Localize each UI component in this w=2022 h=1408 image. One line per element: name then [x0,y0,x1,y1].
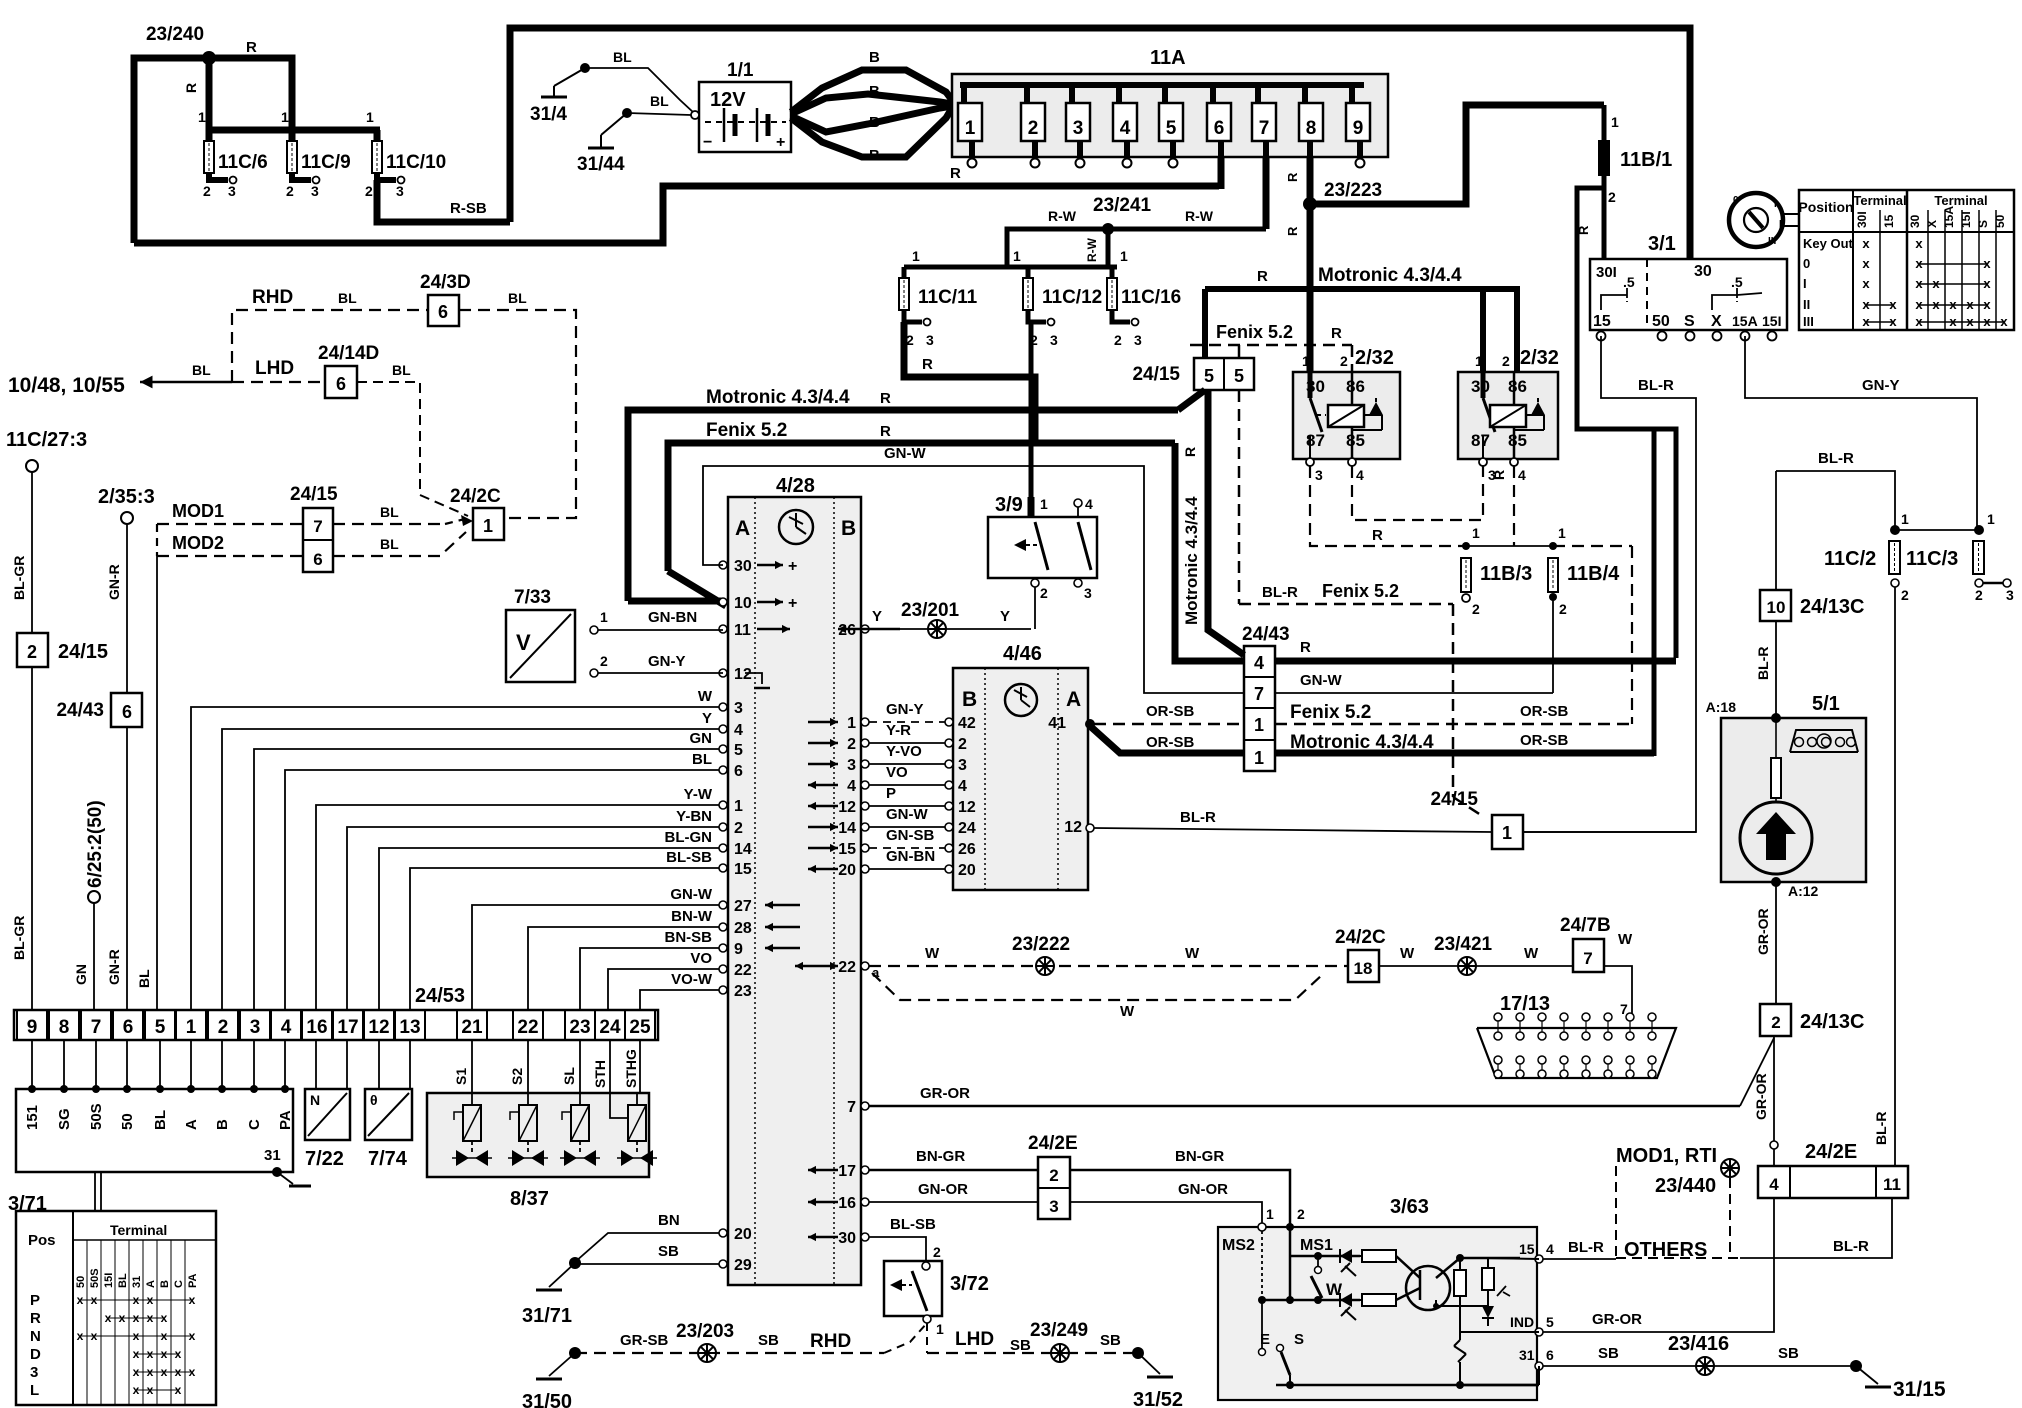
svg-text:23/249: 23/249 [1030,1320,1088,1341]
4/28 A pin arrows [745,558,800,952]
connector 24/43 [1242,624,1290,771]
svg-text:1: 1 [1472,525,1480,541]
svg-text:GR-SB: GR-SB [620,1332,669,1349]
svg-text:Terminal: Terminal [1934,193,1987,208]
svg-text:2: 2 [1028,118,1039,139]
svg-text:3/72: 3/72 [950,1273,989,1295]
svg-text:11A: 11A [1150,47,1186,69]
svg-text:11C/12: 11C/12 [1042,287,1102,308]
switch 3/72 [884,1244,989,1337]
svg-text:86: 86 [1346,377,1365,396]
wire R bottom loop [134,165,1219,243]
svg-text:2: 2 [958,736,967,753]
svg-text:14: 14 [734,841,752,858]
svg-text:A: A [145,1280,157,1288]
terminal 6/25:2(50) [73,800,106,1010]
fuse 11B/3 [1461,558,1532,617]
svg-text:5: 5 [734,742,743,759]
svg-text:1: 1 [1120,248,1128,264]
svg-text:4: 4 [1120,118,1131,139]
svg-text:24/7B: 24/7B [1560,915,1611,936]
wire BN-GR pin 17 [869,1148,1038,1170]
svg-text:BL-SB: BL-SB [890,1216,936,1233]
svg-text:R-SB: R-SB [450,200,487,217]
svg-text:R: R [1331,325,1342,342]
svg-text:6/25:2(50): 6/25:2(50) [85,800,106,888]
svg-text:RHD: RHD [252,287,293,308]
svg-text:Y-R: Y-R [886,722,911,739]
wire BL-R fenix dashed down [1239,390,1453,604]
wire BL MOD2 right [333,532,466,556]
svg-text:Y: Y [872,608,882,625]
svg-text:11C/10: 11C/10 [386,152,446,173]
wire GN-W 24/43 right [1275,672,1553,693]
svg-text:Fenix 5.2: Fenix 5.2 [1216,322,1293,342]
svg-text:17: 17 [337,1017,358,1038]
wire BL-R 3/63 to OTHERS [1543,1239,1616,1259]
ignition switch 3/1 [1590,233,1787,330]
connector 24/15 5 5 [1132,358,1254,390]
svg-text:LHD: LHD [255,358,294,379]
svg-text:Position: Position [1798,199,1853,215]
svg-text:2/32: 2/32 [1355,347,1394,369]
svg-text:Motronic 4.3/4.4: Motronic 4.3/4.4 [1290,732,1434,753]
svg-text:3: 3 [1084,585,1092,601]
svg-text:24/15: 24/15 [290,484,338,505]
svg-text:3: 3 [1050,332,1058,348]
svg-text:Y-BN: Y-BN [676,808,712,825]
wire R Fenix dashed to relay A [1190,322,1352,372]
svg-text:VO-W: VO-W [671,971,713,988]
ground 31/71 [522,1257,581,1327]
svg-text:Terminal: Terminal [1853,193,1906,208]
svg-text:6: 6 [123,1017,134,1038]
svg-text:GN: GN [690,730,713,747]
wire W to 17/13 [1604,931,1633,1017]
svg-text:24/2E: 24/2E [1805,1141,1857,1163]
svg-text:2: 2 [1608,189,1616,205]
svg-text:23: 23 [734,983,752,1000]
svg-text:30: 30 [1908,214,1922,228]
svg-text:15: 15 [734,861,752,878]
svg-text:A:12: A:12 [1788,883,1819,899]
svg-text:11C/27:3: 11C/27:3 [6,429,87,451]
connector 24/43 6 [56,693,142,1010]
svg-text:Motronic 4.3/4.4: Motronic 4.3/4.4 [706,387,850,408]
valve block 8/37 [427,1093,657,1210]
wire R 11C/11 down [904,322,1035,443]
svg-text:3/9: 3/9 [995,494,1023,516]
svg-text:2: 2 [1340,353,1348,369]
svg-text:0: 0 [1803,256,1810,271]
wire BL 24/3D right dashed [459,290,576,518]
connector 24/15 7 6 [290,484,338,572]
svg-text:W: W [1524,945,1539,962]
svg-text:3: 3 [311,183,319,199]
connector 24/3D [420,272,471,326]
svg-text:26: 26 [838,622,856,639]
svg-text:24/43: 24/43 [56,700,104,721]
svg-text:6: 6 [122,702,132,722]
svg-text:A: A [735,517,750,540]
svg-text:S: S [1976,220,1990,228]
wire R to relay 2/32 B pin2 [1514,289,1520,372]
svg-text:15: 15 [838,841,856,858]
svg-text:3: 3 [30,1364,38,1381]
ground 31/4 [530,49,694,125]
svg-text:50: 50 [119,1113,136,1130]
svg-text:SB: SB [1100,1332,1121,1349]
svg-text:1: 1 [847,715,856,732]
relay 2/32 A [1293,347,1400,483]
connector 24/13C 2 [1760,1004,1865,1036]
svg-text:24/43: 24/43 [1242,624,1290,645]
svg-text:24/3D: 24/3D [420,272,471,293]
svg-text:3: 3 [1315,467,1323,483]
svg-text:24/13C: 24/13C [1800,1011,1865,1033]
svg-text:1: 1 [734,798,743,815]
wires 24/53 to 8/37 [453,1040,640,1093]
svg-text:BL: BL [392,362,411,378]
svg-text:MS2: MS2 [1222,1237,1255,1254]
wire W dashed lower [872,973,1322,1020]
svg-text:X: X [1711,313,1722,330]
svg-text:30: 30 [838,1230,856,1247]
svg-text:GN-W: GN-W [1300,672,1342,689]
4/46 pin 12 [1064,819,1094,836]
svg-text:3/63: 3/63 [1390,1196,1429,1218]
svg-text:3: 3 [250,1017,261,1038]
svg-text:1: 1 [1901,511,1909,527]
svg-text:BL-R: BL-R [1818,450,1854,467]
svg-text:50S: 50S [88,1103,105,1130]
svg-text:A:18: A:18 [1706,699,1737,715]
svg-text:50S: 50S [89,1268,101,1288]
wire OR-SB fenix dashed [1094,703,1244,724]
svg-text:31/71: 31/71 [522,1305,572,1327]
fuel pump 5/1 [1706,693,1866,899]
svg-text:15: 15 [1593,313,1611,330]
svg-text:25: 25 [629,1017,651,1038]
svg-text:1: 1 [912,248,920,264]
wire Y pin26 [869,608,1031,629]
svg-text:18: 18 [1354,959,1373,978]
wire BL RHD dashed [232,287,428,382]
svg-text:15: 15 [1882,214,1896,228]
svg-text:BL-R: BL-R [1638,377,1674,394]
svg-text:B: B [962,688,977,711]
svg-text:8/37: 8/37 [510,1188,549,1210]
svg-text:B: B [869,83,880,100]
wire GN-OR pin 16 [869,1181,1038,1202]
wire MOD2 dashed [157,524,303,556]
connector 11C/6 [198,109,292,199]
svg-text:13: 13 [399,1017,420,1038]
wire dashed 11B/4 to OR-SB riser [1491,466,1632,724]
svg-text:24/15: 24/15 [1430,789,1478,810]
svg-text:4: 4 [1085,496,1093,512]
svg-text:2: 2 [1559,601,1567,617]
4/28 B pins [838,622,869,1247]
4/46 pin 41 [1048,715,1095,732]
label Motronic 4.3/4.4 [1318,265,1462,286]
wire R to relay bus [1577,426,1676,658]
svg-text:BL: BL [692,751,712,768]
svg-text:1: 1 [1302,353,1310,369]
svg-text:BL: BL [613,49,632,65]
dashed box MOD1 RTI 23/440 [1616,1145,1740,1258]
svg-text:24/15: 24/15 [1132,364,1180,385]
wire GR-SB RHD dashed [575,1331,884,1353]
wire R-W fuse 7 down [1263,158,1270,229]
svg-text:LHD: LHD [955,1329,994,1350]
connector 24/2E 4 11 [1758,1141,1908,1198]
wire 11B fuses link [1462,525,1566,550]
wire GN-BN [590,609,723,634]
svg-text:R: R [1285,172,1300,182]
wire GR-OR 5/1 down [1755,882,1776,1004]
svg-text:x: x [1862,236,1870,251]
wire R-W [1007,208,1266,267]
wire BL-R 11C/2 [1776,450,1895,530]
connector 11C/3 [1906,511,2014,603]
svg-text:17: 17 [838,1163,856,1180]
splice 23/223 [1303,180,1382,211]
svg-text:29: 29 [734,1257,752,1274]
wire R to relay 2/32 B pin1 [1480,289,1486,372]
svg-text:BL: BL [152,1110,169,1130]
svg-text:5: 5 [1204,366,1214,386]
svg-text:24/14D: 24/14D [318,343,379,364]
control unit 3/71 [8,1085,311,1215]
connector 24/13C 10 [1760,471,1865,621]
svg-text:BL: BL [650,93,669,109]
svg-text:9: 9 [1353,118,1364,139]
svg-text:11C/16: 11C/16 [1121,287,1181,308]
svg-text:5: 5 [1234,366,1244,386]
svg-text:OR-SB: OR-SB [1520,732,1569,749]
svg-text:x: x [1862,256,1870,271]
wire SB 3/63 to 31/15 [1543,1345,1853,1366]
svg-text:+: + [788,558,797,575]
svg-text:Terminal: Terminal [110,1222,167,1238]
svg-text:MOD2: MOD2 [172,533,224,553]
svg-text:II: II [1803,297,1810,312]
svg-text:31/4: 31/4 [530,104,567,125]
splice 23/222 [1012,934,1070,975]
svg-text:I: I [1803,276,1807,291]
svg-text:OR-SB: OR-SB [1146,734,1195,751]
svg-text:11C/11: 11C/11 [918,287,978,308]
wire GN-Y 7/33 [590,653,723,677]
wire LHD dashed [232,358,325,382]
relay 2/32 B [1458,347,1559,483]
svg-text:31: 31 [264,1147,281,1164]
svg-text:24/2C: 24/2C [1335,927,1386,948]
svg-text:4: 4 [1254,653,1264,673]
svg-text:III: III [1803,314,1814,329]
svg-text:Motronic 4.3/4.4: Motronic 4.3/4.4 [1182,496,1201,625]
connector 11C/11 [899,248,978,348]
wire BL-R 24/15 right [1523,831,1696,833]
svg-text:7: 7 [1254,684,1264,704]
svg-text:22: 22 [517,1017,538,1038]
svg-text:12: 12 [734,666,752,683]
svg-text:11B/4: 11B/4 [1567,563,1620,585]
terminal 2/35:3 [98,486,155,693]
svg-text:4: 4 [281,1017,292,1038]
wires 3/71 to table [95,1172,101,1211]
svg-text:R: R [880,423,891,440]
splice 23/203 [676,1321,734,1362]
connector 24/2C 1 [450,486,504,540]
svg-text:BN-SB: BN-SB [665,929,713,946]
wire R motronic riser [1652,429,1657,756]
svg-text:15I: 15I [1762,313,1781,329]
svg-text:BL: BL [380,536,399,552]
svg-text:+: + [776,134,785,151]
svg-text:GN-R: GN-R [106,949,122,985]
svg-text:L: L [30,1382,39,1399]
svg-text:P: P [886,785,896,802]
svg-text:3: 3 [958,757,967,774]
svg-text:B: B [869,114,880,131]
svg-text:2: 2 [27,642,37,662]
svg-text:4: 4 [1356,467,1364,483]
svg-text:8: 8 [1306,118,1317,139]
wire R Fenix corner to 24/43 [1175,443,1244,661]
svg-text:1: 1 [1502,823,1512,843]
svg-text:11C/9: 11C/9 [301,152,351,173]
connector 11C/9 [281,109,351,199]
svg-text:7: 7 [1620,1001,1628,1017]
svg-text:23/440: 23/440 [1655,1175,1716,1197]
svg-text:SL: SL [561,1067,577,1085]
svg-text:2: 2 [203,183,211,199]
svg-text:12: 12 [368,1017,389,1038]
svg-text:.5: .5 [1731,274,1743,290]
svg-text:1: 1 [1013,248,1021,264]
svg-text:A: A [183,1119,200,1130]
svg-text:VO: VO [886,764,908,781]
svg-text:B: B [869,49,880,66]
svg-text:B: B [841,517,856,540]
svg-text:6: 6 [1546,1347,1554,1363]
connector 24/2C 18 [1335,927,1386,982]
svg-text:2: 2 [847,736,856,753]
wire R to 11C connectors [183,58,292,130]
svg-text:6: 6 [1214,118,1225,139]
svg-text:3/1: 3/1 [1648,233,1676,255]
svg-text:II: II [1779,219,1785,230]
svg-text:15A: 15A [1732,313,1758,329]
wire R 11B/1 branch down [1576,188,1604,426]
svg-text:24/53: 24/53 [415,985,465,1007]
svg-text:15I: 15I [1959,211,1973,228]
svg-text:1: 1 [1254,715,1264,735]
wire BL-R 4/46 pin12 [1094,809,1492,832]
svg-text:1: 1 [186,1017,197,1038]
svg-text:W: W [925,945,940,962]
svg-text:26: 26 [958,841,976,858]
svg-text:GN-R: GN-R [106,564,122,600]
connector 24/15 2 [11,633,108,1010]
svg-text:5: 5 [1166,118,1177,139]
svg-text:15: 15 [1519,1241,1535,1257]
svg-text:10: 10 [1767,598,1786,617]
svg-text:0: 0 [1733,195,1739,206]
svg-text:Y-W: Y-W [684,786,713,803]
svg-text:3: 3 [926,332,934,348]
svg-text:11C/6: 11C/6 [218,152,268,173]
svg-text:20: 20 [734,1226,752,1243]
connector 11C/10 [365,109,446,199]
wire bus to 11C/6 11C/9 11C/10 [209,58,380,143]
svg-text:MOD1, RTI: MOD1, RTI [1616,1145,1717,1167]
wire OR-SB fenix dashed right [1275,702,1632,724]
splice 23/249 [1030,1320,1133,1362]
svg-text:17/13: 17/13 [1500,993,1550,1015]
connector 11C/2 [1824,511,1979,603]
svg-text:BN: BN [658,1212,680,1229]
svg-text:x: x [1915,236,1923,251]
svg-text:Key Out: Key Out [1803,236,1854,251]
svg-text:24: 24 [599,1017,621,1038]
svg-text:23/421: 23/421 [1434,934,1493,955]
svg-text:11B/3: 11B/3 [1480,563,1532,585]
svg-text:C: C [246,1119,263,1130]
svg-text:30I: 30I [1855,211,1869,228]
svg-text:16: 16 [306,1017,327,1038]
wire R splice to 11B/1 [1310,105,1604,204]
svg-text:85: 85 [1346,431,1365,450]
svg-text:31/15: 31/15 [1893,1378,1946,1401]
switch 3/9 [988,494,1097,629]
svg-text:12V: 12V [710,89,746,111]
svg-text:R: R [922,356,933,373]
svg-text:MOD1: MOD1 [172,501,224,521]
svg-text:2: 2 [1502,353,1510,369]
svg-text:2: 2 [1049,1166,1058,1185]
svg-text:3: 3 [847,757,856,774]
svg-text:W: W [1618,931,1633,948]
wire BL 24/14D right dashed [357,362,468,516]
svg-text:B: B [869,147,880,164]
svg-text:7: 7 [1259,118,1270,139]
svg-text:R-W: R-W [1085,237,1099,262]
svg-text:2: 2 [933,1244,941,1260]
sensor 7/74 [365,1089,412,1170]
sensor 7/22 [305,1089,350,1170]
svg-text:B: B [159,1280,171,1288]
wire R motronic 24/15 down to 24/43 [1182,390,1244,655]
svg-text:RHD: RHD [810,1331,851,1352]
svg-text:Pos: Pos [28,1232,56,1249]
ground 31/44 [577,93,691,175]
svg-text:2: 2 [600,653,608,669]
svg-text:Motronic 4.3/4.4: Motronic 4.3/4.4 [1318,265,1462,286]
svg-text:31/52: 31/52 [1133,1389,1183,1408]
svg-text:R: R [246,39,257,56]
svg-text:22: 22 [838,959,856,976]
svg-text:24/2E: 24/2E [1028,1133,1078,1154]
connector 24/7B 7 [1560,915,1611,972]
svg-text:GN-OR: GN-OR [1178,1181,1228,1198]
svg-text:BL: BL [192,362,211,378]
4/46 B pins [945,715,976,879]
svg-text:BL-R: BL-R [1755,647,1771,680]
ground 31/52 [1132,1347,1183,1408]
